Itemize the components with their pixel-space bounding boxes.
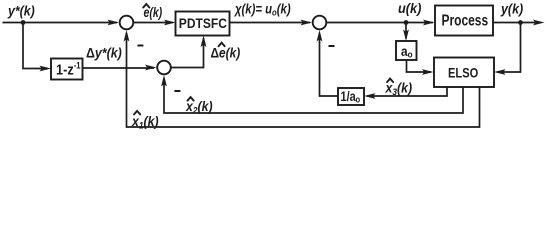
arrowhead sum2 up into PDTSFC bottom: [201, 36, 207, 48]
wire ELSO x1 output to sum1: [127, 33, 480, 127]
wire 1/a0 output up to sum3: [320, 33, 339, 96]
node y junction dot: [518, 20, 523, 25]
arrowhead into Process: [423, 20, 435, 26]
wire y* branch down to 1-z block: [23, 23, 48, 69]
hat of x2-hat(k): [188, 97, 194, 101]
node u junction dot: [404, 20, 409, 25]
wire ELSO x3 output to 1/a0: [367, 87, 447, 96]
arrowhead up into sum3 bottom: [317, 30, 323, 42]
arrowhead down into a0: [403, 30, 409, 42]
svg-text:y*(k): y*(k): [7, 3, 35, 19]
arrowhead into sum1: [108, 20, 120, 26]
arrowhead into 1-z block: [40, 66, 52, 72]
arrowhead into ELSO right side: [494, 69, 506, 75]
svg-text:χ(k)= uo(k): χ(k)= uo(k): [233, 0, 290, 17]
wire 1-z output to sum2: [83, 67, 155, 69]
node y* junction dot: [21, 20, 26, 25]
hat of x1-hat(k): [134, 111, 140, 115]
arrowhead into 1/a0 right: [364, 93, 376, 99]
block 1-z^-1: [51, 59, 83, 80]
arrowhead into sum2: [145, 65, 157, 71]
block Process: [435, 6, 493, 36]
block ELSO: [434, 58, 494, 88]
hat of delta e-hat(k): [219, 43, 225, 47]
svg-text:e(k): e(k): [144, 5, 163, 21]
block 1/a0: [338, 88, 364, 105]
arrowhead up into sum1 bottom: [124, 30, 130, 42]
svg-text:x3(k): x3(k): [385, 80, 412, 97]
minus sign at sum2: [174, 90, 180, 92]
wire PDTSFC output to sum3: [230, 22, 311, 24]
arrowhead into ELSO left side: [422, 69, 434, 75]
summing junction sum3: [313, 16, 327, 30]
arrowhead output right end: [533, 20, 545, 26]
wire a0 to ELSO left: [407, 60, 432, 72]
wire sum3 to Process: [327, 22, 433, 24]
svg-text:Process: Process: [442, 11, 489, 29]
arrowhead into sum3: [301, 20, 313, 26]
summing junction sum1: [120, 16, 134, 30]
block a0: [396, 41, 417, 60]
svg-text:x2(k): x2(k): [185, 98, 212, 115]
svg-text:Δe(k): Δe(k): [211, 45, 241, 61]
wire y* input main line: [3, 22, 118, 24]
wire u branch down to a0: [405, 23, 407, 39]
wire sum1 to PDTSFC: [134, 22, 173, 24]
hat of e-hat(k): [143, 4, 149, 8]
wire Process output: [493, 22, 535, 24]
wire ELSO x2 output to sum2: [164, 79, 463, 114]
minus sign at sum3: [329, 45, 335, 47]
wire sum2 output up to PDTSFC bottom: [172, 38, 204, 68]
svg-text:u(k): u(k): [398, 0, 422, 16]
hat of x3-hat(k): [387, 79, 393, 83]
summing junction sum2: [157, 61, 171, 75]
svg-text:Δy*(k): Δy*(k): [86, 45, 122, 61]
svg-text:y(k): y(k): [500, 1, 524, 17]
svg-text:PDTSFC: PDTSFC: [179, 15, 228, 31]
arrowhead into PDTSFC left: [164, 20, 176, 26]
wire y branch down to ELSO right: [497, 23, 521, 73]
svg-text:x1(k): x1(k): [131, 113, 158, 130]
minus sign at sum1: [137, 45, 143, 47]
arrowhead up into sum2 bottom: [161, 75, 167, 87]
block PDTSFC: [176, 12, 230, 36]
svg-text:ELSO: ELSO: [448, 65, 478, 80]
